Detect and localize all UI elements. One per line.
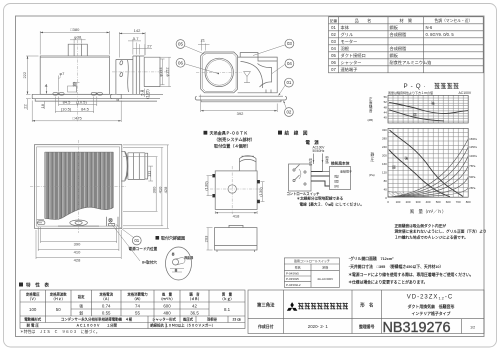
- svg-text:428: 428: [74, 257, 81, 262]
- svg-text:シャッター形式: シャッター形式: [152, 316, 176, 321]
- suspension top view duct: [240, 156, 257, 171]
- side keyhole bolts: [119, 60, 123, 77]
- section square face: [201, 52, 238, 93]
- svg-text:強: 強: [79, 304, 83, 309]
- dim 4 flange: [45, 83, 48, 94]
- svg-text:（ｍ³/ｈ）: （ｍ³/ｈ）: [159, 296, 175, 301]
- svg-text:392: 392: [237, 111, 244, 116]
- svg-text:150Pa: 150Pa: [469, 137, 477, 141]
- dim 20 small: [72, 81, 80, 92]
- svg-text:定格周波数: 定格周波数: [49, 292, 68, 297]
- svg-text:シャッター: シャッター: [341, 59, 362, 66]
- side centerline: [112, 71, 166, 73]
- svg-text:8.1: 8.1: [224, 307, 231, 312]
- svg-text:特 性 表: 特 性 表: [26, 282, 49, 289]
- balloon 01 power cord: [116, 225, 141, 245]
- suspension side view box: [215, 225, 258, 252]
- svg-text:01: 01: [286, 80, 291, 85]
- svg-text:R2.5: R2.5: [185, 255, 194, 260]
- spec table heading: [19, 282, 49, 289]
- svg-text:52: 52: [384, 100, 388, 104]
- svg-text:410: 410: [157, 186, 162, 193]
- pressure chart grid: [388, 128, 468, 197]
- svg-text:□380: □380: [70, 27, 80, 32]
- svg-text:定格電圧: 定格電圧: [25, 292, 40, 297]
- dim 475: [32, 101, 121, 123]
- chart title: [404, 83, 459, 90]
- svg-text:１０ＭΩ以上（５００Ｖメガー）: １０ＭΩ以上（５００Ｖメガー）: [165, 323, 215, 328]
- svg-text:P-Q·: P-Q·: [404, 83, 429, 90]
- svg-text:21: 21: [201, 38, 206, 43]
- svg-text:ダクト用換気扇 低騒音形: ダクト用換気扇 低騒音形: [408, 304, 455, 309]
- dim 222: [22, 56, 38, 94]
- front view body: [40, 56, 109, 94]
- svg-text:定格: 定格: [322, 264, 328, 269]
- balloon 01: [279, 78, 294, 95]
- noise axis title: [368, 97, 374, 122]
- svg-text:P-03SW5: P-03SW5: [286, 277, 299, 281]
- detail view label: [156, 235, 186, 241]
- svg-text:500: 500: [436, 200, 441, 204]
- svg-text:2020- 2- 1: 2020- 2- 1: [308, 324, 329, 329]
- svg-text:φ152: φ152: [164, 67, 169, 77]
- svg-text:42: 42: [192, 304, 197, 309]
- svg-text:0. 8GY9. 0/0. 5: 0. 8GY9. 0/0. 5: [426, 32, 455, 37]
- balloon 06: [176, 58, 219, 74]
- svg-text:300: 300: [152, 186, 157, 193]
- bottom view centerlines: [78, 140, 80, 233]
- svg-text:40: 40: [384, 187, 388, 191]
- svg-text:速結端子: 速結端子: [341, 66, 358, 73]
- spec table data: [29, 304, 231, 316]
- dim 22: [22, 99, 31, 110]
- svg-text:インテリア格子タイプ: インテリア格子タイプ: [412, 311, 451, 316]
- dim 130 right: [258, 182, 265, 202]
- svg-text:04: 04: [287, 61, 292, 66]
- side flange plate: [110, 94, 163, 101]
- svg-text:＊電源コードにより線を使用する際は、専用圧着端子をご使用くだ: ＊電源コードにより線を使用する際は、専用圧着端子をご使用ください。: [348, 272, 473, 277]
- svg-text:N-6: N-6: [426, 25, 433, 30]
- svg-text:（Ｖ）: （Ｖ）: [28, 296, 38, 301]
- svg-text:グリル: グリル: [341, 31, 354, 38]
- fan curve weak: [389, 150, 450, 197]
- svg-text:800: 800: [466, 200, 471, 204]
- svg-text:125Pa: 125Pa: [469, 145, 477, 149]
- svg-text:480: 480: [163, 311, 171, 316]
- svg-text:55: 55: [135, 311, 140, 316]
- bottom view outline: [34, 145, 121, 229]
- suspension top view square: [215, 171, 257, 210]
- svg-text:P-04SWL2: P-04SWL2: [286, 283, 301, 287]
- chart footnote: [395, 223, 487, 240]
- svg-text:(135): (135): [144, 89, 149, 99]
- svg-text:形名: 形名: [295, 264, 301, 269]
- svg-text:測定値に含まれないようにし、グリル正面（下方）より: 測定値に含まれないようにし、グリル正面（下方）より: [395, 229, 487, 234]
- bottom view lower details: [37, 217, 118, 226]
- dims 84.5 / 10.5 row1: [59, 97, 97, 107]
- section flange: [195, 96, 286, 102]
- svg-text:56: 56: [384, 95, 388, 99]
- svg-text:(10.5): (10.5): [76, 100, 87, 105]
- svg-text:(130): (130): [203, 181, 208, 191]
- dim 418: [215, 211, 257, 218]
- svg-text:弱: 弱: [392, 166, 396, 170]
- title block grid: [248, 290, 484, 334]
- svg-text:羽根径: 羽根径: [207, 316, 218, 321]
- svg-text:320: 320: [382, 128, 387, 132]
- svg-text:400: 400: [426, 200, 431, 204]
- svg-text:結 線 図: 結 線 図: [285, 130, 308, 137]
- section center line: [196, 71, 242, 73]
- svg-text:材 質: 材 質: [400, 17, 413, 24]
- suspension center circle: [228, 185, 236, 193]
- svg-text:合成樹脂: 合成樹脂: [390, 31, 407, 38]
- svg-text:05: 05: [331, 53, 336, 58]
- svg-text:75Pa: 75Pa: [469, 164, 476, 168]
- dim 111: [146, 166, 153, 181]
- svg-text:50Pa: 50Pa: [469, 175, 476, 179]
- grille wavy broken edge: [45, 207, 114, 219]
- dims 390 410 428 bottom: [36, 227, 121, 262]
- svg-text:428: 428: [163, 186, 168, 193]
- svg-text:（Ｈｚ）: （Ｈｚ）: [51, 296, 65, 301]
- mounting hole label: [110, 222, 157, 265]
- svg-text:8×取付穴: 8×取付穴: [142, 260, 157, 265]
- svg-text:(10.5): (10.5): [61, 107, 72, 112]
- dims 10.5 / 84.5 row2: [55, 97, 93, 114]
- svg-text:48: 48: [384, 105, 388, 109]
- svg-text:圧: 圧: [371, 158, 375, 162]
- svg-text:モーター: モーター: [341, 38, 358, 45]
- section body: [238, 53, 278, 93]
- svg-text:整理番号: 整理番号: [358, 324, 375, 329]
- front view ceiling flange: [32, 94, 121, 98]
- svg-text:電圧側: 電圧側: [308, 158, 312, 166]
- front view centerline: [77, 40, 79, 122]
- dim 380: [40, 27, 109, 55]
- wiring label: [278, 130, 308, 137]
- dim phi7: [59, 71, 66, 92]
- svg-text:コントロールスイッチ: コントロールスイッチ: [287, 191, 321, 196]
- svg-text:300: 300: [416, 200, 421, 204]
- svg-text:(130): (130): [258, 187, 263, 197]
- dim 203: [203, 228, 212, 250]
- noise chart grid: [388, 95, 468, 123]
- svg-text:１ｍ離れた地点でのＡレンジによる値です。: １ｍ離れた地点でのＡレンジによる値です。: [395, 234, 468, 239]
- balloon 02: [284, 101, 294, 117]
- fan curve strong: [390, 130, 464, 197]
- svg-text:接地側: 接地側: [325, 156, 329, 164]
- dims 300 410 428 vertical: [123, 145, 169, 229]
- svg-text:（強）: （強）: [332, 173, 341, 178]
- svg-text:＊特性は ＪＩＳ Ｃ ９６０３ に基づく。: ＊特性は ＪＩＳ Ｃ ９６０３ に基づく。: [20, 329, 100, 334]
- svg-text:0.74: 0.74: [102, 304, 111, 309]
- svg-text:50: 50: [56, 307, 61, 312]
- svg-text:弱: 弱: [413, 113, 417, 117]
- svg-text:1/2: 1/2: [470, 326, 475, 330]
- svg-text:静: 静: [371, 152, 375, 157]
- svg-text:80: 80: [384, 179, 388, 183]
- balloon 05: [176, 40, 205, 55]
- svg-text:風圧式: 風圧式: [183, 316, 194, 321]
- svg-text:22: 22: [22, 104, 27, 109]
- svg-text:120: 120: [382, 170, 387, 174]
- dim 5.7: [128, 36, 141, 55]
- svg-text:05: 05: [178, 42, 183, 47]
- svg-text:絶縁抵抗: 絶縁抵抗: [150, 323, 164, 328]
- svg-text:耐 電 圧: 耐 電 圧: [27, 323, 40, 328]
- installation notes: [348, 256, 473, 284]
- svg-text:設定: 設定: [78, 294, 85, 299]
- svg-text:200: 200: [382, 154, 387, 158]
- svg-text:取付位置（４個所）: 取付位置（４個所）: [214, 143, 251, 149]
- svg-text:風量は騒音特性より下方１ｍの値: 風量は騒音特性より下方１ｍの値: [388, 90, 433, 95]
- svg-text:色調（マンセル・近）: 色調（マンセル・近）: [434, 18, 472, 23]
- svg-text:第三角法: 第三角法: [257, 302, 275, 309]
- svg-text:鋼板: 鋼板: [390, 52, 399, 59]
- fan body box: [330, 167, 351, 190]
- svg-text:鋼板: 鋼板: [390, 24, 399, 31]
- parts table text: [330, 17, 472, 73]
- svg-text:風 量（ｍ³／ｈ）: 風 量（ｍ³／ｈ）: [410, 208, 447, 215]
- noise curve strong: [389, 103, 468, 114]
- svg-text:5.7: 5.7: [133, 36, 139, 41]
- svg-text:0.55: 0.55: [102, 311, 111, 316]
- svg-text:強: 強: [431, 101, 435, 106]
- svg-text:111: 111: [146, 170, 151, 177]
- svg-text:ＡＣ１０００Ｖ １分間: ＡＣ１０００Ｖ １分間: [76, 323, 117, 328]
- svg-text:電源コード穴位置: 電源コード穴位置: [129, 246, 158, 251]
- grille hatch border: [45, 152, 114, 218]
- svg-text:390: 390: [74, 241, 81, 246]
- svg-text:･天井開口寸法 □395 （野縁幅さ450以下、天井材10）: ･天井開口寸法 □395 （野縁幅さ450以下、天井材10）: [348, 264, 443, 269]
- svg-text:AC100V: AC100V: [459, 91, 472, 95]
- svg-text:100: 100: [396, 200, 401, 204]
- front view mounting slots: [53, 92, 103, 95]
- spec table header text: [25, 292, 234, 303]
- mounting hole detail circle: [166, 247, 194, 280]
- control switch box: [289, 164, 312, 191]
- dim 27: [133, 44, 152, 56]
- svg-text:P-04SW5: P-04SW5: [286, 271, 299, 275]
- svg-text:VD-23ZX12-C: VD-23ZX12-C: [407, 295, 453, 301]
- svg-text:＊太線部分は現地配線である: ＊太線部分は現地配線である: [297, 196, 344, 201]
- spec table lower rows: [24, 316, 241, 327]
- noise chart y labels: [384, 95, 388, 120]
- resistance curves: [388, 139, 468, 197]
- svg-text:84.5: 84.5: [63, 100, 72, 105]
- svg-text:100: 100: [29, 307, 37, 312]
- dim 142: [119, 28, 145, 58]
- svg-text:換気扇本体: 換気扇本体: [331, 161, 350, 166]
- svg-text:弱: 弱: [79, 311, 83, 316]
- svg-text:410: 410: [74, 249, 81, 254]
- svg-text:NB319276: NB319276: [383, 320, 451, 336]
- svg-text:風 量: 風 量: [162, 292, 173, 297]
- svg-text:耐食性アルミニウム箔: 耐食性アルミニウム箔: [390, 59, 432, 66]
- connecting wires: [311, 172, 330, 187]
- suspension bolt tabs: [212, 174, 260, 203]
- svg-text:18: 18: [40, 103, 45, 108]
- svg-text:142: 142: [134, 28, 141, 33]
- svg-text:φ144: φ144: [158, 67, 163, 77]
- svg-text:合成樹脂: 合成樹脂: [390, 45, 407, 52]
- resistance curve labels: [469, 137, 477, 190]
- svg-text:06: 06: [331, 60, 336, 65]
- svg-text:形 名: 形 名: [360, 302, 373, 309]
- svg-text:速結端子: 速結端子: [340, 169, 352, 174]
- front view duct stub: [68, 44, 87, 56]
- dim 130 left: [203, 176, 213, 196]
- svg-text:600: 600: [446, 200, 451, 204]
- pressure chart y labels: [382, 128, 387, 200]
- svg-text:25Pa: 25Pa: [469, 186, 476, 190]
- svg-text:コンデンサー永久分相形単相誘導電動機 ４極: コンデンサー永久分相形単相誘導電動機 ４極: [61, 316, 133, 321]
- bottom view inner frame: [37, 147, 120, 226]
- svg-text:品 名: 品 名: [355, 17, 372, 24]
- wire side labels: [308, 156, 329, 166]
- svg-text:50/60Hz: 50/60Hz: [313, 149, 325, 153]
- svg-text:23 ㎝: 23 ㎝: [232, 317, 241, 321]
- power arrows: [313, 160, 324, 162]
- svg-text:天吊金具Ｐ-０８ＴＫ: 天吊金具Ｐ-０８ＴＫ: [210, 130, 248, 136]
- spec table grid: [20, 290, 245, 329]
- svg-text:（別売システム部材）: （別売システム部材）: [214, 136, 255, 142]
- svg-text:ダクト接続口: ダクト接続口: [341, 52, 366, 59]
- svg-text:本体: 本体: [341, 24, 350, 31]
- svg-text:正面騒音は吸込側ダクト内圧が: 正面騒音は吸込側ダクト内圧が: [395, 223, 447, 228]
- dim phi38: [70, 35, 86, 44]
- svg-text:適用コントロールスイッチ: 適用コントロールスイッチ: [294, 258, 330, 263]
- svg-text:222: 222: [22, 71, 27, 78]
- dim 21: [198, 38, 210, 51]
- svg-text:取付穴詳細図: 取付穴詳細図: [161, 235, 185, 241]
- svg-text:（Ａ）: （Ａ）: [101, 296, 111, 301]
- balloon 04: [272, 59, 294, 73]
- svg-text:羽根: 羽根: [341, 45, 350, 52]
- wiring note: [297, 196, 364, 207]
- svg-text:280: 280: [382, 137, 387, 141]
- side body section: [116, 56, 160, 94]
- svg-text:（弱）: （弱）: [332, 179, 341, 183]
- svg-text:06: 06: [178, 60, 183, 65]
- Mitsubishi logo: [287, 302, 298, 311]
- svg-text:203: 203: [203, 235, 208, 242]
- terminals: [332, 169, 352, 189]
- noise curve weak: [389, 110, 444, 121]
- svg-text:160: 160: [382, 162, 387, 166]
- svg-text:騒 音: 騒 音: [189, 292, 200, 297]
- svg-text:418: 418: [233, 213, 240, 218]
- pressure chart x labels: [387, 200, 471, 204]
- dim 18: [40, 101, 45, 109]
- section duct circle: [205, 58, 233, 86]
- svg-text:φ7: φ7: [60, 71, 66, 76]
- svg-text:記番: 記番: [330, 18, 338, 23]
- dim 5.4 / 1.35 bottom: [139, 89, 149, 99]
- svg-text:07: 07: [331, 67, 336, 72]
- svg-text:強: 強: [405, 156, 409, 161]
- suspension centerlines: [231, 166, 233, 214]
- svg-text:質 量: 質 量: [222, 292, 233, 297]
- suspension label: [204, 130, 255, 149]
- svg-text:44: 44: [384, 111, 388, 115]
- power lines: [314, 154, 330, 172]
- svg-text:04: 04: [331, 46, 336, 51]
- svg-text:74: 74: [135, 304, 140, 309]
- dim phi144 phi152: [158, 57, 171, 86]
- pressure axis title: [369, 152, 375, 177]
- company name: [298, 303, 348, 310]
- svg-text:600: 600: [163, 304, 171, 309]
- svg-text:20: 20: [72, 81, 77, 86]
- svg-text:電線【最大２．０㎟】にしてください。: 電線【最大２．０㎟】にしてください。: [300, 201, 364, 206]
- svg-text:03: 03: [287, 41, 292, 46]
- duct stub bottom view: [121, 151, 148, 181]
- svg-text:02: 02: [331, 32, 336, 37]
- svg-text:電動機形式: 電動機形式: [24, 316, 42, 321]
- svg-text:＊仕様は場合により変更することがあります。: ＊仕様は場合により変更することがあります。: [348, 279, 427, 284]
- svg-text:定格消費電力: 定格消費電力: [126, 292, 148, 297]
- svg-text:4A-AC300V: 4A-AC300V: [317, 277, 333, 281]
- svg-text:作成日付: 作成日付: [258, 324, 274, 329]
- svg-text:（共）: （共）: [332, 183, 341, 188]
- svg-text:01: 01: [331, 25, 336, 30]
- control switch table grid: [284, 258, 339, 288]
- svg-text:（ｄＢ）: （ｄＢ）: [188, 296, 202, 301]
- svg-text:700: 700: [456, 200, 461, 204]
- svg-text:02: 02: [286, 110, 291, 115]
- svg-text:（Ｗ）: （Ｗ）: [132, 296, 142, 301]
- svg-text:84.5: 84.5: [81, 107, 90, 112]
- parts table grid: [329, 17, 484, 73]
- hatched exclusion zone: [388, 191, 414, 197]
- front view grille lip: [35, 99, 118, 101]
- svg-text:36.5: 36.5: [190, 311, 199, 316]
- svg-text:(Pa): (Pa): [369, 173, 375, 177]
- svg-text:φ38: φ38: [74, 35, 82, 40]
- svg-text:240: 240: [382, 145, 387, 149]
- svg-text:･グリル開口面積 712cm²: ･グリル開口面積 712cm²: [348, 256, 394, 261]
- svg-text:01: 01: [134, 238, 139, 243]
- svg-text:□475: □475: [73, 116, 83, 121]
- dim 392: [201, 95, 278, 116]
- svg-text:40: 40: [384, 116, 388, 120]
- svg-text:100Pa: 100Pa: [469, 154, 477, 158]
- svg-text:27: 27: [147, 44, 152, 49]
- svg-text:(dB): (dB): [368, 118, 374, 122]
- control switch table text: [286, 258, 333, 287]
- svg-text:200: 200: [406, 200, 411, 204]
- svg-text:03: 03: [331, 39, 336, 44]
- svg-text:定格電流: 定格電流: [98, 292, 113, 297]
- balloon 03: [253, 39, 294, 55]
